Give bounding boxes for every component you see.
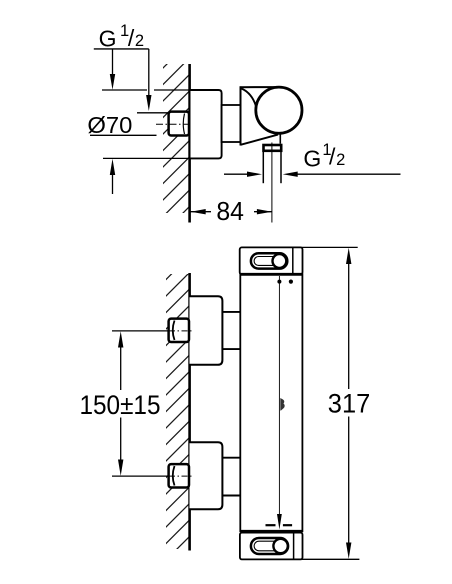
bottom block inner vertical line [293, 533, 295, 559]
outlet pipe centerline, also right extension for 84 dim [271, 143, 273, 223]
inlet nut inner arc [183, 114, 184, 135]
internal line bottom arrow [277, 514, 282, 530]
150±15 upper extension line [112, 330, 169, 332]
body cusp curve (neck transition) [241, 89, 256, 108]
G 1/2 outlet dimension arrows at pipe [224, 173, 248, 175]
Ø70 lower extension line (flange bottom edge extended) [103, 157, 190, 159]
nut top edge extension line [137, 112, 169, 114]
inlet union nut at wall (side view) [169, 112, 189, 136]
body bottom diagonal [241, 135, 279, 145]
top handle block [240, 247, 303, 274]
svg-text:317: 317 [328, 389, 371, 419]
escutcheon flange (side view) [191, 90, 222, 158]
150±15 dimension line lower segment with down arrow [120, 418, 122, 461]
svg-text:84: 84 [216, 198, 244, 226]
upper escutcheon (front view) [190, 296, 223, 365]
wall hatching (top view) [163, 64, 189, 213]
main body rectangle [240, 274, 302, 531]
150±15 lower extension line [112, 475, 169, 477]
top handle knob circle [273, 254, 287, 268]
lower connector [222, 457, 240, 459]
valve body top edge [240, 86, 279, 88]
Ø70 upper extension line (flange top edge extended) [102, 89, 147, 91]
84 dimension line and arrows [191, 211, 212, 213]
screw dot [289, 280, 293, 284]
outlet pipe walls [262, 152, 264, 183]
bottom handle knob circle [273, 539, 287, 553]
leader from G1/2 label to inlet nut (down arrow) [148, 49, 150, 95]
top block inner vertical line [292, 248, 294, 274]
150±15 dimension line upper segment with up arrow [120, 347, 122, 390]
bottom handle pill outer [251, 538, 288, 554]
wall face line (top view), also left extension for 84 dim [188, 64, 191, 223]
internal reference dot on line [277, 280, 281, 284]
svg-text:G: G [99, 25, 117, 51]
lower nut centerline dash-dot [169, 475, 193, 477]
lower wall nut (front view) [169, 464, 189, 487]
svg-text:/: / [128, 25, 135, 51]
top handle pill inner [254, 257, 284, 266]
upper nut centerline dash-dot [169, 330, 193, 332]
upper nut inner arc [173, 321, 175, 341]
top block bottom thick edge [240, 273, 303, 276]
upper connector [222, 311, 240, 313]
inlet nut centerline (dash-dot) [156, 123, 189, 125]
internal bottom right dash [283, 524, 292, 526]
svg-text:150±15: 150±15 [80, 390, 161, 420]
outlet union nut (side view) [264, 145, 282, 151]
underline of G 1/2 label [94, 48, 149, 50]
lower escutcheon (front view) [190, 442, 223, 509]
top handle pill outer [251, 253, 287, 268]
Ø70 upper arrow (down) hanging from underline [112, 49, 114, 74]
tiny marking on body (logo) [280, 398, 284, 411]
svg-text:/: / [329, 144, 336, 170]
bottom handle block [240, 533, 303, 560]
internal vertical dimension line [278, 276, 280, 515]
nut bottom edge extension line [90, 134, 157, 136]
svg-text:2: 2 [135, 32, 144, 50]
control knob circle [256, 87, 302, 133]
wall face line (bottom view) [188, 273, 191, 551]
svg-text:G: G [303, 145, 321, 171]
svg-text:Ø70: Ø70 [87, 112, 132, 138]
valve body back line [240, 86, 242, 145]
lower nut inner arc [173, 466, 175, 486]
317 dimension line lower segment with down arrow [348, 417, 350, 544]
Ø70 lower arrow (up) [112, 175, 114, 194]
upper wall nut (front view) [169, 319, 189, 342]
wall hatching (bottom view) [166, 274, 189, 549]
svg-text:2: 2 [336, 151, 345, 169]
outlet side line below knob [279, 133, 281, 144]
bottom handle pill inner [254, 541, 285, 551]
317 dimension line upper segment with up arrow [348, 263, 350, 389]
317 lower extension line [292, 558, 359, 560]
connector cylinder (side view) [222, 105, 241, 142]
body bottom thick edge [240, 530, 302, 533]
317 upper extension line [293, 246, 358, 248]
internal bottom left dash [266, 524, 276, 526]
